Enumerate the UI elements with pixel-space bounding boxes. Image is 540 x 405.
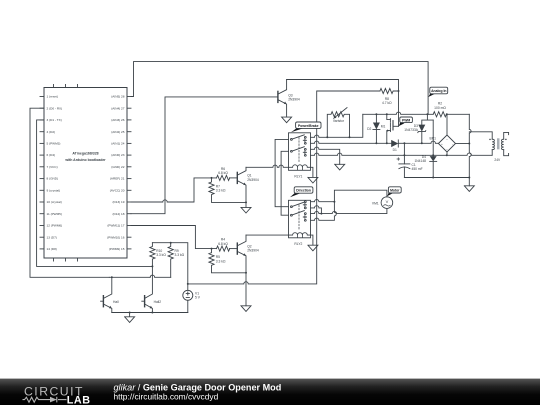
svg-text:1N4733A: 1N4733A <box>404 128 419 132</box>
wire RLY1 row3 to ground <box>311 147 340 164</box>
BR1 right lead <box>456 143 470 145</box>
transistor Q2 2N3904 <box>229 235 259 306</box>
svg-text:5 V: 5 V <box>195 296 201 300</box>
svg-text:(D12) 18: (D12) 18 <box>112 212 124 216</box>
resistor R4 6.8k <box>217 238 230 252</box>
ground below Q2 <box>241 306 251 312</box>
wire Q2 collector to RLY2 coil <box>246 234 289 236</box>
capacitor C1 450mF <box>397 143 423 177</box>
ground below Q1 <box>241 207 251 213</box>
transistor Hall2 <box>142 266 161 312</box>
node A rail to R2 <box>363 112 433 114</box>
wire RLY1 row2 line B to D1 <box>311 141 392 143</box>
svg-text:Hall: Hall <box>113 300 119 304</box>
svg-text:24V: 24V <box>494 158 501 162</box>
svg-text:(AIN3) 26: (AIN3) 26 <box>111 118 125 122</box>
svg-text:3.3 kΩ: 3.3 kΩ <box>175 253 185 257</box>
svg-text:ATmega168/328: ATmega168/328 <box>72 152 98 156</box>
svg-text:100 mΩ: 100 mΩ <box>434 106 446 110</box>
5V rail V1 to R8 riser <box>188 91 380 284</box>
svg-text:(AIN1) 24: (AIN1) 24 <box>111 142 125 146</box>
svg-text:6 (D4): 6 (D4) <box>47 153 56 157</box>
svg-text:(PWM10) 16: (PWM10) 16 <box>107 235 125 239</box>
transformer T1 24V <box>469 132 508 162</box>
svg-text:Analog In: Analog In <box>431 89 446 93</box>
svg-text:(AIN5) 28: (AIN5) 28 <box>111 95 125 99</box>
Analog In flag <box>428 87 447 97</box>
svg-text:VM1: VM1 <box>372 201 379 205</box>
bottom rail Hall/V1 <box>112 312 188 314</box>
svg-text:Direction: Direction <box>296 189 311 193</box>
svg-text:14 (D8): 14 (D8) <box>47 247 57 251</box>
wire Q3 collector to PWM node <box>287 80 399 127</box>
wire RLY2 row4 tie up to row1 <box>311 202 337 221</box>
Power/Brake flag <box>291 122 321 132</box>
svg-text:(AIN4) 27: (AIN4) 27 <box>111 106 125 110</box>
line B continuation to BR1 left <box>404 141 438 143</box>
svg-text:1N4148: 1N4148 <box>414 159 426 163</box>
wire RLY1 row1 varistor line to node A <box>311 114 363 137</box>
wire pin18 to Q3 base <box>131 97 278 214</box>
svg-text:(GND) 22: (GND) 22 <box>111 165 125 169</box>
resistor R2 100m <box>433 102 469 117</box>
svg-text:450 mF: 450 mF <box>412 167 423 171</box>
wire pin2 to Hall/R9 <box>30 108 109 277</box>
resistor R10 3.3k <box>150 243 167 267</box>
svg-text:4.7 kΩ: 4.7 kΩ <box>382 101 392 105</box>
svg-text:(AIN2) 25: (AIN2) 25 <box>111 130 125 134</box>
ground at right vertical <box>464 186 474 192</box>
svg-text:3.3 kΩ: 3.3 kΩ <box>216 189 226 193</box>
wire RLY2 row2 jog down <box>311 206 322 214</box>
svg-text:Power/Brake: Power/Brake <box>298 124 319 128</box>
svg-text:9 (crystal): 9 (crystal) <box>47 188 61 192</box>
wire RLY2 row1 to motor top <box>311 200 335 202</box>
Direction flag <box>290 187 313 198</box>
footer bar <box>0 379 540 405</box>
wire pin3 to Hall2/R10 <box>37 120 153 267</box>
svg-text:1 (reset): 1 (reset) <box>47 95 59 99</box>
svg-text:7 (VCC): 7 (VCC) <box>47 165 58 169</box>
transistor Hall <box>101 277 119 312</box>
svg-text:Varistor: Varistor <box>333 119 345 123</box>
PWM flag <box>399 117 413 126</box>
wire pin17 to R4 Q2 base <box>131 226 217 249</box>
relay RLY2 box <box>289 200 311 246</box>
svg-text:10 (crystal): 10 (crystal) <box>47 200 62 204</box>
svg-text:(AREF) 21: (AREF) 21 <box>110 177 125 181</box>
resistor R5 3.3k <box>209 248 246 273</box>
svg-text:RLY2: RLY2 <box>294 242 302 246</box>
svg-text:8 (GND): 8 (GND) <box>47 177 59 181</box>
rectifier BR1 <box>430 114 456 155</box>
svg-text:6.8 kΩ: 6.8 kΩ <box>218 171 228 175</box>
resistor R9 3.3k <box>168 243 185 278</box>
svg-text:2N3904: 2N3904 <box>247 178 259 182</box>
voltage source V1 5V <box>183 290 201 312</box>
svg-text:(AVCC) 20: (AVCC) 20 <box>110 188 125 192</box>
svg-text:3.3 kΩ: 3.3 kΩ <box>216 259 226 263</box>
svg-text:V: V <box>386 199 389 204</box>
relay RLY1 box <box>289 133 311 179</box>
wire Q1 collector to RLY1 coil <box>246 165 289 167</box>
voltmeter VM1 <box>372 197 393 209</box>
svg-text:11 (PWM5): 11 (PWM5) <box>47 212 62 216</box>
ground below rail <box>125 313 135 323</box>
transistor Q3 2N3904 <box>278 80 300 118</box>
ground RLY1 coil <box>308 167 318 183</box>
svg-text:LAB: LAB <box>67 394 91 405</box>
svg-text:5 (PWM3): 5 (PWM3) <box>47 142 61 146</box>
transistor Q1 2N3904 <box>229 167 259 207</box>
ground RLY2 coil <box>308 235 318 251</box>
svg-text:BR1: BR1 <box>430 137 437 141</box>
svg-text:D2: D2 <box>367 127 371 131</box>
svg-text:3.3 kΩ: 3.3 kΩ <box>156 253 166 257</box>
svg-text:PWM: PWM <box>402 118 410 122</box>
wire pin19 to R6 Q1 base <box>131 178 217 202</box>
svg-text:2N3904: 2N3904 <box>288 98 300 102</box>
Motor flag <box>387 187 401 197</box>
svg-text:(AIN0) 23: (AIN0) 23 <box>111 153 125 157</box>
svg-text:12 (PWM6): 12 (PWM6) <box>47 224 63 228</box>
svg-text:2 (D0 - RX): 2 (D0 - RX) <box>47 106 63 110</box>
svg-text:3 (D1 - TX): 3 (D1 - TX) <box>47 118 62 122</box>
mosfet M1 <box>381 114 399 143</box>
diode D1 <box>391 140 404 152</box>
svg-text:with Arduino bootloader: with Arduino bootloader <box>64 158 106 162</box>
svg-text:2N3904: 2N3904 <box>247 249 259 253</box>
zener D3 1N4733A branch <box>404 114 433 143</box>
wire RLY1 row4 long line to transformer <box>311 153 492 155</box>
right vertical with hops <box>469 114 471 186</box>
svg-text:13 (D7): 13 (D7) <box>47 235 57 239</box>
svg-text:(D13) 19: (D13) 19 <box>112 200 124 204</box>
svg-text:RLY1: RLY1 <box>294 174 302 178</box>
wire RLY1 pole1 tie to RLY2 pole1 <box>275 139 288 206</box>
svg-text:D1: D1 <box>393 148 397 152</box>
svg-text:-: - <box>452 142 453 146</box>
CircuitLab logo <box>23 382 282 405</box>
ground rail right <box>404 177 469 179</box>
wire RLY1 pole2 tie to RLY2 pole2 <box>281 151 288 215</box>
chip U1 ATmega168/328 <box>40 85 131 262</box>
ground below Q3 <box>282 117 292 123</box>
svg-text:http://circuitlab.com/cvvcdyd: http://circuitlab.com/cvvcdyd <box>114 392 219 402</box>
resistor R8 4.7k <box>380 88 399 105</box>
wire R10/R9 tops to V1 <box>152 243 187 291</box>
svg-text:Hall2: Hall2 <box>154 300 162 304</box>
resistor R7 3.3k <box>209 177 246 203</box>
resistor R6 6.8k <box>217 167 230 180</box>
svg-text:6.8 kΩ: 6.8 kΩ <box>218 242 228 246</box>
wire RLY2 row3 to motor bottom <box>311 208 387 213</box>
varistor <box>327 108 349 138</box>
svg-text:Motor: Motor <box>390 189 400 193</box>
svg-text:(PWM9) 15: (PWM9) 15 <box>109 247 125 251</box>
diode D4 1N4148 branch <box>414 120 436 177</box>
wire pin28 to Analog In <box>131 62 428 115</box>
svg-text:(PWM11) 17: (PWM11) 17 <box>107 224 124 228</box>
svg-text:M1: M1 <box>381 125 386 129</box>
diode D2 <box>367 114 380 143</box>
svg-text:4 (D2): 4 (D2) <box>47 130 56 134</box>
